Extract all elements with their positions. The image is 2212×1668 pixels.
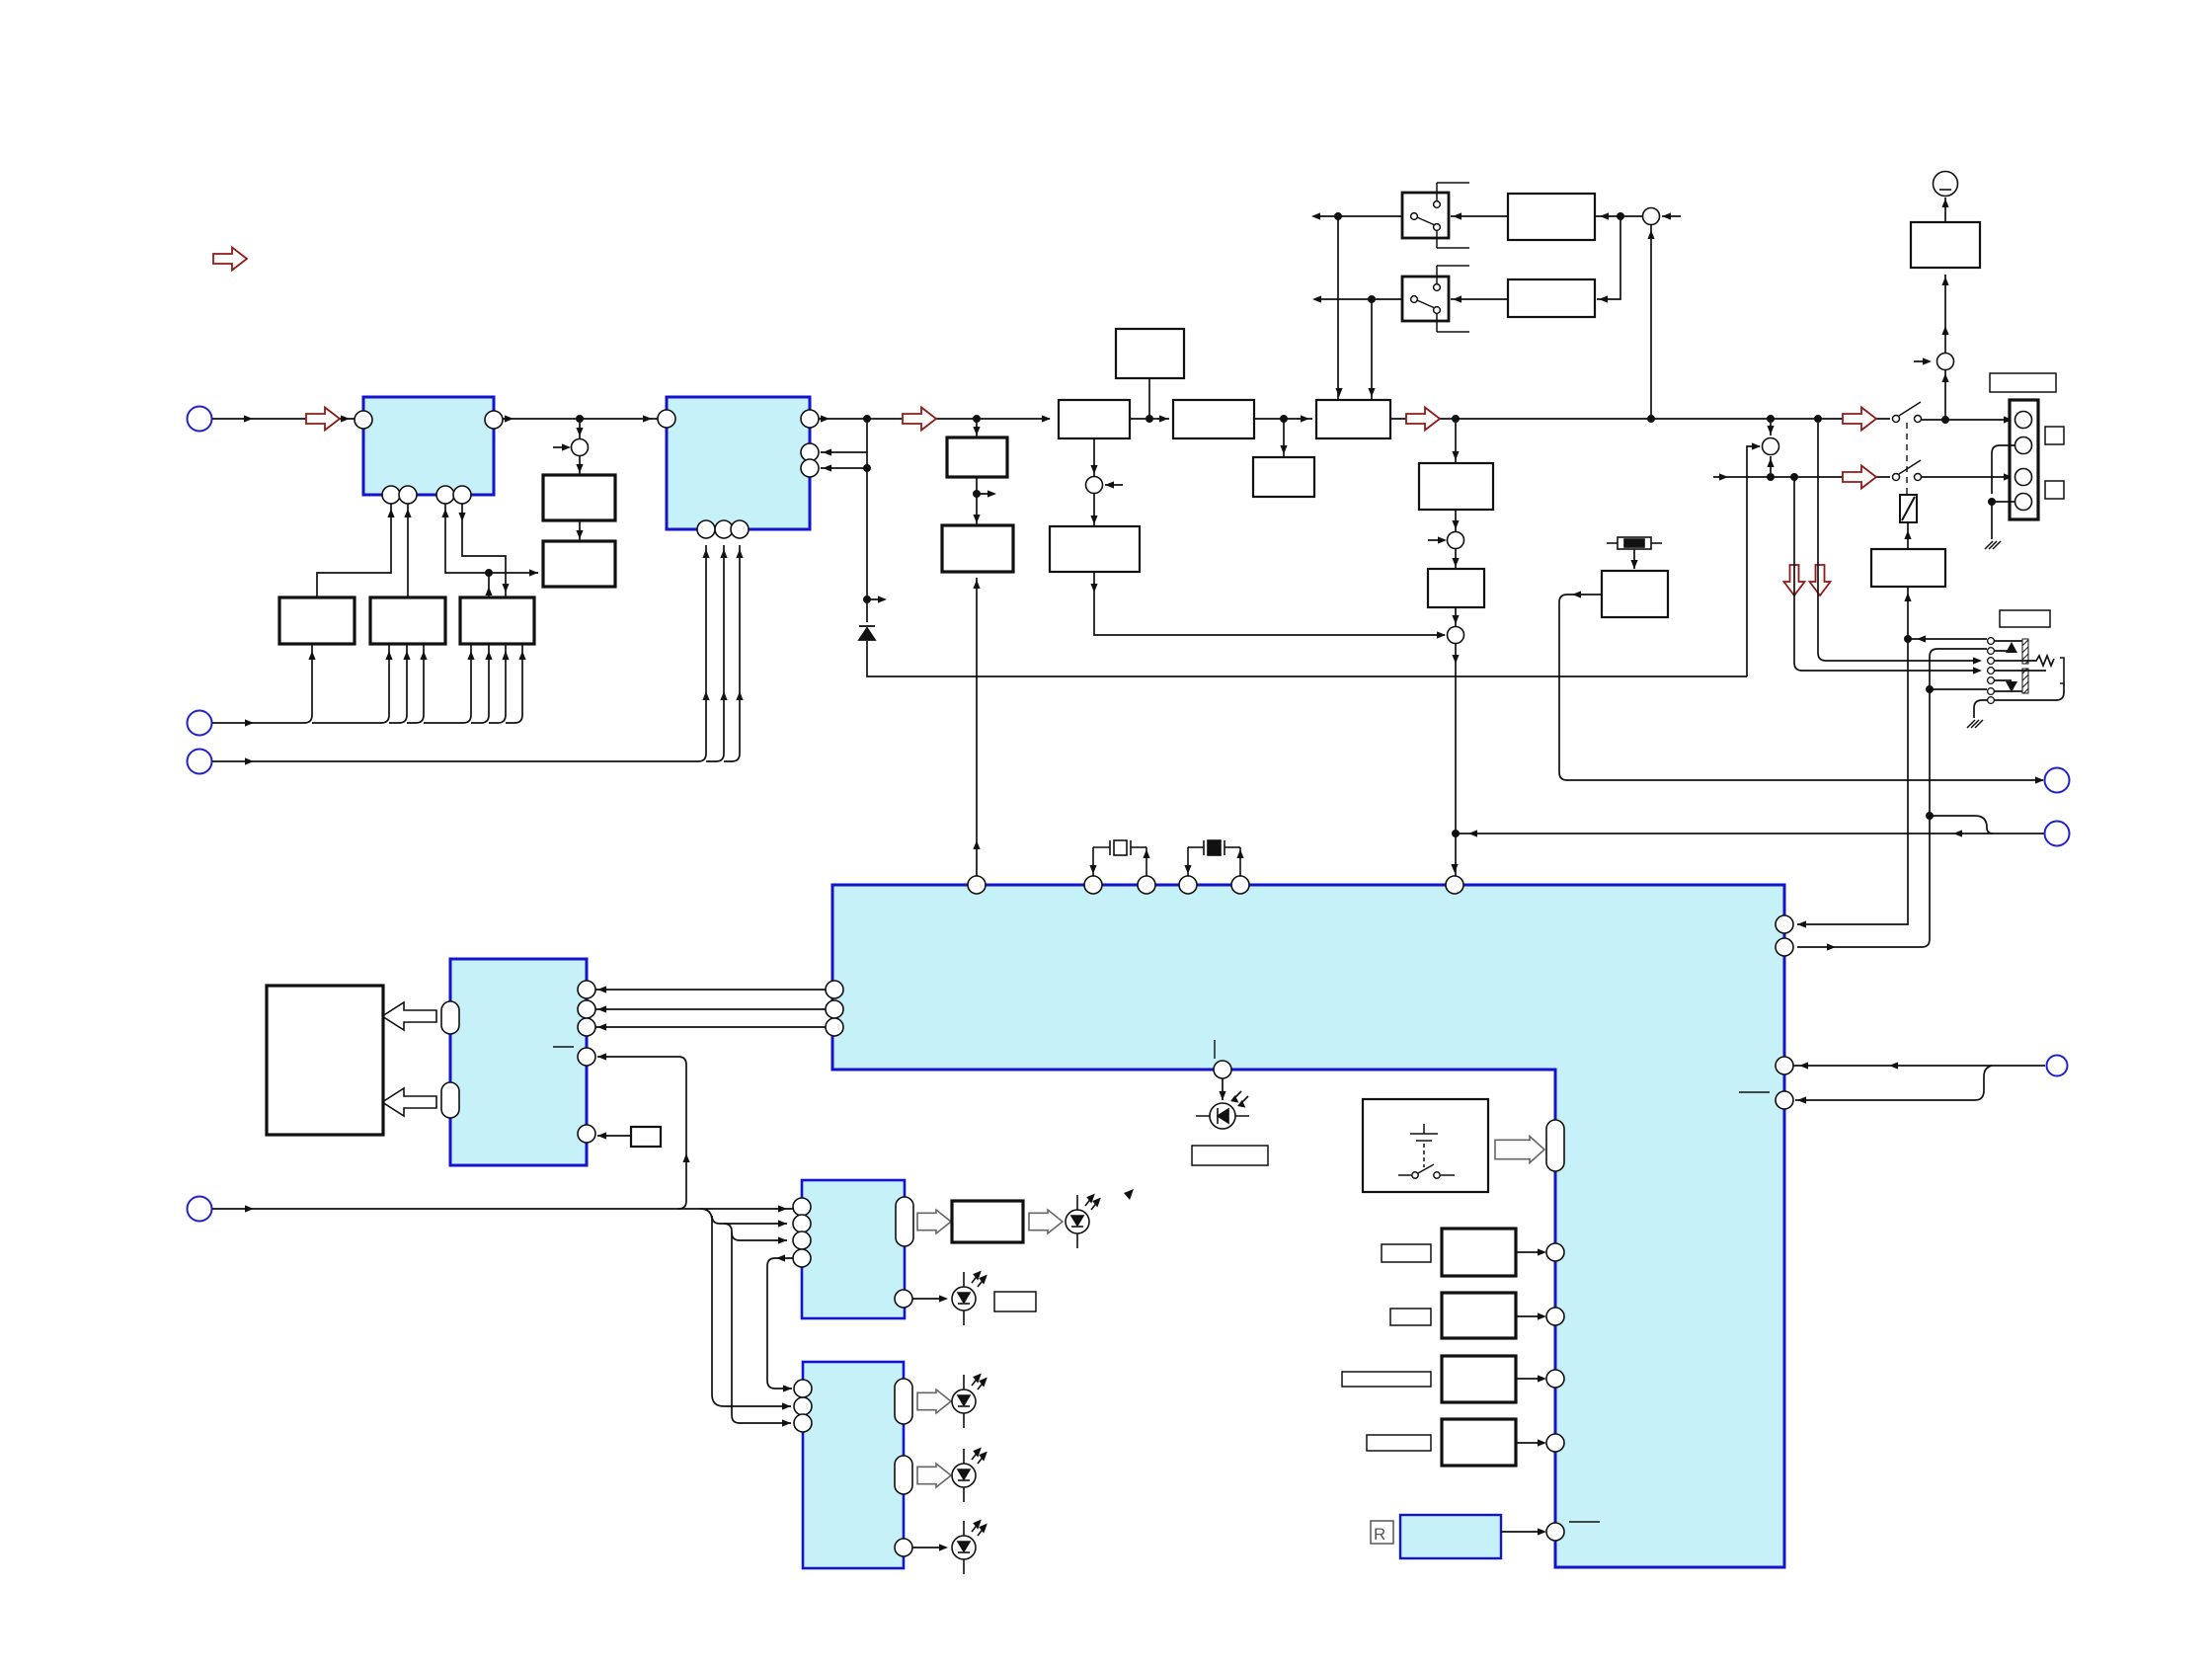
branch b6p2: [700, 1209, 791, 1406]
arrowhead: [776, 1254, 785, 1261]
jack pin2 stub: [1994, 650, 2012, 652]
jack pin3 resistor: [1994, 656, 2054, 666]
arrow to LCD 1: [382, 1002, 436, 1030]
arrowhead: [1600, 212, 1609, 219]
node v2 b: [1926, 812, 1934, 820]
arrowhead: [245, 719, 254, 726]
arrow to LCD 2: [382, 1088, 436, 1116]
wire R3 left down: [1559, 595, 2043, 780]
pin LA out2: [895, 1290, 912, 1308]
arrowhead: [1797, 920, 1806, 927]
wire W1 down: [1093, 438, 1095, 476]
box S902 key 2: [1442, 1293, 1516, 1338]
pin CPU t5: [1231, 876, 1249, 894]
pin LA 2: [793, 1215, 811, 1232]
stub into S1: [553, 446, 569, 448]
curve to mute line: [1930, 816, 1993, 834]
gray arrow LA: [917, 1210, 951, 1233]
LED D602: [952, 1272, 987, 1325]
pin LB out3: [895, 1539, 912, 1556]
wire pin6 stub: [1930, 688, 1987, 690]
pin U2 b3: [731, 520, 749, 538]
arrowhead: [643, 415, 652, 422]
wire sw2 to conn: [1922, 476, 2013, 478]
wire J7 line: [1793, 1065, 2045, 1067]
arrowhead: [518, 651, 525, 660]
pill DD 1: [441, 1001, 459, 1034]
arrowhead: [1105, 481, 1114, 488]
connector CN1: [2010, 400, 2038, 519]
arrowhead: [1538, 1312, 1546, 1319]
pin LB 1: [794, 1380, 812, 1397]
jack sleeve bar A: [2022, 639, 2028, 664]
wire relay to Q: [1907, 522, 1909, 549]
wire R1 to SW1: [1451, 215, 1508, 217]
label box CN1: [1990, 373, 2056, 392]
jack pin7 sleeve: [1994, 683, 2064, 700]
arrowhead: [1630, 560, 1637, 569]
wire fb lines: [821, 419, 867, 468]
pin CPU e4: [1546, 1434, 1564, 1452]
stub right: [867, 598, 885, 600]
pin CPU l1: [826, 981, 843, 998]
wire row2 down to jack: [1794, 477, 1980, 671]
arrowhead: [1090, 516, 1097, 524]
box power switch S921: [1363, 1099, 1488, 1192]
wire remote: [1501, 1531, 1544, 1533]
wire J4 main: [212, 1208, 793, 1210]
arrowhead: [1767, 426, 1774, 435]
signal arrow B: [903, 408, 936, 431]
terminal J7: [2047, 1056, 2068, 1076]
pin CN1-1: [2015, 412, 2032, 429]
wire to H1: [1283, 419, 1285, 457]
arrowhead: [1453, 295, 1461, 302]
wire cpu-disp 1: [595, 989, 826, 991]
box G above bus: [1116, 329, 1184, 378]
jack contact down: [2006, 681, 2017, 692]
arrowhead: [1452, 520, 1459, 529]
arrowhead: [244, 415, 253, 422]
wire s901: [1516, 1251, 1544, 1253]
pin U2 fb1: [801, 443, 819, 461]
arrowhead: [308, 651, 315, 660]
arrowhead: [1973, 657, 1982, 664]
arrowhead: [458, 513, 465, 521]
signal arrow E: [1843, 466, 1876, 489]
arrowhead: [1719, 473, 1728, 480]
gray arrow LA2: [1029, 1210, 1063, 1233]
box R2: [1508, 279, 1595, 317]
arrowhead: [1437, 631, 1446, 638]
wire LB led3: [912, 1547, 946, 1549]
arrowhead: [1468, 830, 1477, 836]
box K2: [543, 541, 615, 587]
branch b6p2h: [712, 1216, 787, 1224]
node v2 a: [1926, 685, 1934, 693]
arrowhead: [939, 1295, 948, 1302]
branch b7p3: [724, 1224, 791, 1423]
wire cpu-disp 2: [595, 1008, 826, 1010]
pin CPU b1: [1214, 1061, 1231, 1078]
arrowhead: [1184, 865, 1191, 874]
contacts SW2: [1411, 266, 1469, 332]
wire diode branch: [866, 468, 868, 622]
wire b6 to b7: [767, 1258, 793, 1389]
pin CPU e1: [1546, 1243, 1564, 1261]
pin U2 b2: [715, 520, 733, 538]
signal arrow C: [1406, 408, 1440, 431]
summing node S1: [572, 439, 589, 456]
wire LA led2: [912, 1298, 946, 1300]
label S904: [1367, 1435, 1431, 1451]
arrowhead: [1538, 1528, 1546, 1535]
node SW2: [1368, 295, 1376, 303]
box T1: [1911, 222, 1980, 268]
wire node to S6: [1944, 370, 1946, 420]
wire R2 to SW2: [1451, 298, 1508, 300]
pin DD r1: [578, 981, 595, 998]
arrowhead: [404, 509, 411, 517]
wire bus to sum1: [579, 423, 581, 438]
node jack detect: [1904, 635, 1912, 643]
wire J7 branch: [1795, 1066, 1992, 1100]
wire S3 to P2: [1455, 549, 1457, 569]
summing node S3: [1448, 532, 1464, 549]
wire node to V3: [488, 573, 490, 597]
wire cpu-disp 3: [595, 1026, 826, 1028]
arrowhead: [485, 587, 492, 596]
signal arrow A: [306, 408, 340, 431]
node bus E: [1280, 415, 1288, 423]
arrowhead: [597, 1053, 606, 1060]
wire J1 to U1: [212, 418, 355, 420]
wire jack pin1 line: [1908, 638, 1987, 640]
node bus B: [863, 415, 871, 423]
arrowhead: [385, 651, 392, 660]
wire row2 to S7: [1770, 456, 1772, 473]
node bus H: [1767, 415, 1775, 423]
arrowhead: [485, 651, 492, 660]
arrowhead: [1311, 212, 1320, 219]
node mute line: [1452, 830, 1460, 837]
arrowhead: [1941, 373, 1948, 382]
node bus C: [973, 415, 981, 423]
pin U2 in: [658, 410, 675, 428]
wire U1 pin4 to V3: [462, 504, 506, 597]
arrowhead: [1647, 230, 1654, 239]
switch SP1: [1893, 402, 1922, 423]
arrowhead: [823, 464, 831, 471]
arrowhead: [1219, 1091, 1225, 1100]
wire s903: [1516, 1378, 1544, 1380]
arrowhead: [1089, 865, 1096, 874]
arrowhead: [2004, 473, 2013, 480]
arrowhead: [441, 509, 448, 517]
arrowhead: [1827, 943, 1836, 950]
arrowhead: [1451, 864, 1458, 873]
arrowhead: [973, 515, 980, 523]
arrowhead: [502, 651, 509, 660]
node CN gnd: [1988, 498, 1996, 506]
box S901 key 1: [1442, 1229, 1516, 1276]
wire row2: [1713, 476, 1890, 478]
arrowhead: [1953, 830, 1962, 836]
jack pin4 line: [1994, 670, 2046, 672]
arrowhead: [1159, 415, 1168, 422]
pin U1 out: [485, 411, 503, 429]
arrowhead: [973, 427, 980, 436]
block IC602 LED driver B: [803, 1362, 904, 1568]
arrowhead: [1599, 295, 1608, 302]
arrowhead: [878, 596, 887, 602]
arrowhead: [821, 415, 829, 422]
branch b6p3h: [732, 1232, 787, 1240]
wire CN1-2 gnd: [1992, 445, 2014, 539]
node SW1: [1334, 212, 1342, 220]
box R3: [1602, 571, 1668, 617]
node row2 a: [1767, 473, 1775, 481]
block IC601 LED driver A: [802, 1180, 905, 1318]
square tab 2: [2045, 481, 2064, 499]
arrowhead: [2004, 416, 2013, 423]
pin CPU t2: [1084, 876, 1102, 894]
box W2: [1173, 400, 1254, 438]
wire bundle stubs: [312, 644, 522, 652]
arrowhead: [529, 569, 538, 576]
arrowhead: [597, 1023, 606, 1030]
box Q1 amp: [1871, 549, 1945, 587]
wire R2 vert: [1597, 216, 1620, 299]
LCD display: [267, 986, 383, 1135]
switch box SW1: [1402, 193, 1449, 238]
arrowhead: [576, 464, 583, 473]
wire X3 down: [1633, 549, 1635, 569]
summing node S4: [1448, 627, 1464, 644]
pin LA 1: [793, 1198, 811, 1216]
pin CN1-4: [2015, 494, 2032, 511]
jack pin 1: [1988, 638, 1995, 645]
wire beep: [597, 1135, 631, 1137]
pin DD r2: [578, 1000, 595, 1018]
node diode tap: [863, 596, 871, 603]
arrowhead: [782, 1419, 791, 1426]
arrowhead: [387, 509, 394, 517]
wire U1 out bus: [503, 418, 658, 420]
wire J4 up to DD: [597, 1057, 686, 1209]
arrowhead: [2035, 776, 2044, 783]
wire R1 to node: [1595, 215, 1642, 217]
arrowhead: [682, 1153, 689, 1162]
summing node S6: [1937, 354, 1954, 370]
gray arrow LB2: [917, 1464, 951, 1487]
arrowhead: [1941, 277, 1948, 285]
wire SW2 left: [1314, 298, 1402, 300]
pin tick dd: [553, 1046, 574, 1048]
pin CPU l3: [826, 1018, 843, 1036]
spark mark: [1124, 1189, 1134, 1200]
wire J2 bus: [212, 652, 522, 723]
wire SW1 left: [1313, 215, 1402, 217]
box LED power: [952, 1201, 1023, 1242]
box W3: [1316, 400, 1390, 438]
wire P2 to S4: [1455, 607, 1457, 626]
jack pin1 stub: [1994, 640, 2022, 642]
pin U1 b3: [436, 486, 454, 504]
summing node S2: [1086, 477, 1103, 494]
LED D605: [952, 1521, 987, 1574]
wire V2 to U1 pin2: [407, 504, 409, 597]
jack pin6 stub: [1994, 690, 2022, 692]
diode D1: [859, 626, 875, 640]
pin CPU r2: [1776, 938, 1793, 956]
crystal X2: [1188, 840, 1240, 876]
wire Q1 down: [1797, 587, 1908, 924]
pin LA 3: [793, 1231, 811, 1249]
arrowhead: [1572, 591, 1581, 597]
arrowhead: [1453, 212, 1461, 219]
contacts SW1: [1411, 183, 1469, 248]
arrowhead: [505, 415, 513, 422]
wire U2 out bus: [819, 418, 1050, 420]
block U1 input selector: [363, 397, 494, 495]
arrowhead: [1941, 326, 1948, 335]
node R1: [1617, 212, 1624, 220]
wire diode down: [867, 641, 1747, 676]
arrowhead: [823, 448, 831, 455]
arrowhead: [341, 415, 350, 422]
pill LB out1: [895, 1379, 912, 1424]
wire bus W2-W3: [1254, 418, 1312, 420]
wire mute to right: [1456, 833, 2044, 834]
arrowhead: [720, 549, 727, 558]
node under U1: [485, 569, 493, 577]
jack pin 2: [1988, 648, 1995, 655]
gray arrow power: [1495, 1137, 1544, 1163]
pin U1 in: [355, 411, 372, 429]
pin CPU r1: [1776, 915, 1793, 933]
box W1: [1059, 400, 1130, 438]
box S904 key 4: [1442, 1419, 1516, 1466]
svg-text:R: R: [1374, 1525, 1385, 1544]
pin tick b1: [1214, 1040, 1216, 1059]
crystal X1: [1093, 840, 1146, 876]
pill power: [1546, 1120, 1564, 1171]
pin CPU t4: [1179, 876, 1197, 894]
jack contact up: [2006, 642, 2017, 653]
wire N1 to S4: [1094, 572, 1445, 635]
node row2 b: [1790, 473, 1798, 481]
node bus A: [576, 415, 584, 423]
mute arrow 2: [1810, 565, 1831, 596]
arrowhead: [403, 651, 410, 660]
terminal J4 key: [188, 1197, 212, 1222]
jack sleeve bar B: [2022, 669, 2028, 693]
dashed link: [1906, 423, 1908, 495]
terminal J1 line-in: [188, 407, 212, 432]
arrowhead: [702, 549, 709, 558]
pin CPU r4: [1776, 1091, 1793, 1109]
wire S6 to box: [1944, 275, 1946, 354]
wire M1 M2: [976, 477, 978, 525]
arrowhead: [1767, 458, 1774, 467]
box M2: [942, 525, 1013, 572]
LED D604: [952, 1449, 987, 1502]
wire sw to conn: [1922, 419, 2013, 421]
arrowhead: [1452, 558, 1459, 567]
block remote sensor: [1400, 1515, 1501, 1558]
block IC901 system control: [832, 885, 1784, 1567]
arrowhead: [702, 691, 709, 700]
pin CPU r3: [1776, 1057, 1793, 1074]
pin U1 b4: [453, 486, 471, 504]
terminal J6: [2045, 822, 2070, 846]
pin CPU e3: [1546, 1370, 1564, 1388]
wire CN1-4 stub: [1992, 501, 2014, 503]
box P2: [1428, 569, 1484, 607]
legend arrow: [213, 248, 247, 271]
pin U1 b2: [399, 486, 417, 504]
pin U2 fb2: [801, 459, 819, 477]
arrowhead: [420, 651, 427, 660]
arrowhead: [778, 1236, 787, 1243]
wire SW2 down: [1371, 299, 1373, 400]
arrowhead: [1438, 536, 1447, 543]
arrowhead: [1538, 1375, 1546, 1382]
wire S4 to CPU: [1455, 643, 1457, 876]
arrowhead: [597, 1132, 606, 1139]
arrowhead: [1312, 295, 1321, 302]
arrowhead: [576, 428, 583, 437]
arrowhead: [245, 757, 254, 764]
arrowhead: [467, 651, 474, 660]
stub into S3: [1428, 539, 1445, 541]
label S902: [1390, 1309, 1431, 1325]
arrowhead: [1941, 199, 1948, 207]
label LED D602: [994, 1292, 1036, 1311]
pill DD 2: [441, 1082, 459, 1118]
wire bus W1-W2: [1130, 418, 1169, 420]
arrowhead: [1236, 849, 1243, 858]
pin DD r5: [578, 1125, 595, 1143]
wire SW1 down: [1337, 216, 1339, 400]
box H1: [1253, 457, 1314, 497]
arrowhead: [1452, 655, 1459, 664]
arrowhead: [783, 1385, 792, 1391]
arrowhead: [562, 443, 571, 450]
terminal J2 control: [188, 711, 212, 736]
wire S5 to bus: [1650, 225, 1652, 419]
pin CPU t3: [1138, 876, 1155, 894]
box K1: [543, 475, 615, 520]
pill LB out2: [895, 1456, 912, 1494]
arrowhead: [973, 840, 980, 849]
pin U2 b1: [697, 520, 715, 538]
wire to IR: [1222, 1078, 1224, 1100]
block U2 DSP: [667, 397, 810, 529]
stub right2: [977, 493, 994, 495]
box P1: [1419, 463, 1493, 510]
pin tick e5: [1569, 1521, 1600, 1523]
pin CN1-3: [2015, 469, 2032, 486]
box S903 key 3: [1442, 1356, 1516, 1402]
wire M2 to CPU: [976, 578, 978, 876]
arrowhead: [1042, 415, 1051, 422]
gray arrow LB1: [917, 1390, 951, 1413]
box M1: [947, 437, 1007, 477]
arrowhead: [720, 691, 727, 700]
jack pin 4: [1988, 668, 1995, 675]
